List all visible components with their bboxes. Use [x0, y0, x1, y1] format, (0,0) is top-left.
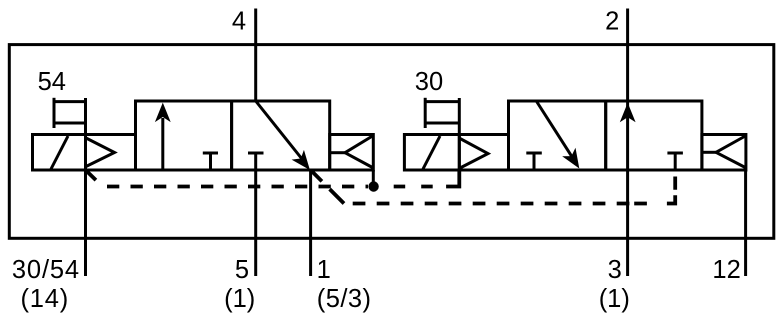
- svg-text:(1): (1): [224, 285, 255, 313]
- svg-text:5: 5: [235, 256, 249, 284]
- svg-text:(1): (1): [599, 285, 630, 313]
- svg-text:(5/3): (5/3): [317, 285, 372, 313]
- svg-text:4: 4: [232, 7, 246, 35]
- svg-text:54: 54: [38, 68, 66, 96]
- svg-text:3: 3: [608, 256, 622, 284]
- svg-text:30/54: 30/54: [12, 256, 80, 284]
- svg-text:1: 1: [317, 256, 331, 284]
- svg-text:(14): (14): [21, 285, 70, 313]
- svg-text:30: 30: [415, 68, 443, 96]
- svg-text:12: 12: [712, 256, 740, 284]
- svg-text:2: 2: [605, 7, 619, 35]
